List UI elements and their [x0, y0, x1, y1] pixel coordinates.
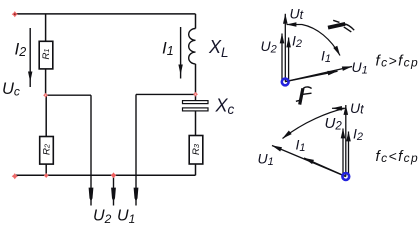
output arrow (center, common tap) [111, 175, 116, 205]
angle arc with arrows (lower) [283, 108, 346, 138]
inductor XL [189, 29, 196, 64]
svg-text:U1: U1 [117, 208, 135, 227]
svg-text:U2: U2 [261, 38, 277, 56]
wire: node B drop to U1 arrow [135, 94, 137, 205]
wire: XL branch down from top rail [195, 14, 197, 29]
svg-text:Uc: Uc [2, 80, 20, 99]
label I2 [15, 40, 27, 60]
angle arc with arrows (upper) [287, 25, 341, 56]
label fc<fcp [376, 148, 420, 165]
label XL [208, 37, 229, 60]
resistor R1 [39, 41, 53, 69]
label U1 (lower) [258, 151, 274, 169]
svg-text:Ut: Ut [290, 5, 304, 22]
svg-text:U2: U2 [93, 208, 112, 227]
wire: XC to R3 [195, 111, 197, 136]
label Xc [215, 96, 235, 118]
vector Ut (upper) [284, 14, 286, 82]
svg-text:I1: I1 [296, 137, 306, 155]
vector I1 (lower) [304, 158, 346, 177]
resistor R3 [189, 136, 203, 165]
wire: top rail [15, 13, 196, 15]
label I1 (upper) [321, 48, 331, 66]
vector U1 (upper) [285, 67, 352, 82]
node: center tap junction on rail (red star) [111, 172, 117, 178]
current arrow I2 [28, 28, 32, 87]
vector I1 (upper) [285, 71, 337, 81]
svg-text:I2: I2 [353, 126, 363, 144]
label I2 (upper) [292, 32, 302, 50]
label U2 (lower) [325, 115, 343, 133]
label Ut (lower) [350, 100, 364, 117]
label U2 (output) [93, 208, 112, 227]
label I1 (lower) [296, 137, 306, 155]
wire: R2 top [45, 95, 47, 136]
wire: R2 bottom [45, 164, 47, 175]
output arrow (right, node B tap) [134, 188, 139, 202]
svg-text:XL: XL [208, 37, 229, 60]
current arrow I1 [178, 27, 182, 79]
wire: node B to tap [136, 93, 196, 95]
label U1 (output) [117, 208, 135, 227]
wire: XL to node B [195, 64, 197, 101]
node: top-left terminal (red star) [12, 11, 18, 17]
svg-text:Xc: Xc [215, 96, 235, 118]
vector U2 (lower) [342, 129, 344, 177]
wire: bottom rail [15, 174, 196, 176]
label I2 (lower) [353, 126, 363, 144]
label Ut (upper) [290, 5, 304, 22]
label fc>fcp [376, 53, 420, 70]
svg-text:I2: I2 [15, 40, 27, 60]
svg-text:I1: I1 [162, 39, 174, 59]
wire: node A drop to U2 arrow [90, 95, 92, 205]
wire: R3 bottom to rail [195, 164, 197, 175]
svg-text:R2: R2 [41, 143, 52, 155]
svg-text:R3: R3 [191, 143, 202, 155]
wire: R1 top stub [45, 14, 47, 41]
svg-text:Ut: Ut [350, 100, 364, 117]
svg-text:fc<fcp: fc<fcp [376, 148, 420, 165]
label f (frequency direction, lower) [296, 87, 312, 105]
label U1 (upper) [352, 59, 368, 77]
origin node (blue ring, lower) [342, 173, 349, 180]
vector U2 (upper) [281, 34, 283, 82]
node: bottom-left terminal (red star) [12, 173, 18, 179]
svg-text:I1: I1 [321, 48, 331, 66]
svg-text:U1: U1 [258, 151, 274, 169]
svg-text:U1: U1 [352, 59, 368, 77]
label I1 [162, 39, 174, 59]
node: R2/rail junction (red star) [44, 173, 49, 178]
capacitor XC [183, 101, 209, 111]
svg-text:I2: I2 [292, 32, 302, 50]
output arrow (left, node A tap) [89, 188, 94, 202]
label f (frequency direction, upper, rotated) [328, 20, 354, 32]
node A junction (red star) [43, 93, 48, 98]
label U2 (upper) [261, 38, 277, 56]
label Uc [2, 80, 20, 99]
resistor R2 [40, 137, 54, 165]
wire: R1 bottom to node A [45, 69, 47, 95]
node B junction (red star) [193, 92, 198, 97]
origin node (blue ring, upper) [282, 79, 289, 86]
vector U1 (lower) [272, 146, 346, 177]
svg-text:R1: R1 [41, 48, 52, 59]
vector Ut (lower) [345, 105, 347, 177]
svg-text:U2: U2 [325, 115, 343, 133]
svg-text:fc>fcp: fc>fcp [376, 53, 420, 70]
vector I2 (lower) [348, 132, 350, 177]
wire: node A to tap [46, 94, 91, 96]
vector I2 (upper) [288, 38, 290, 82]
